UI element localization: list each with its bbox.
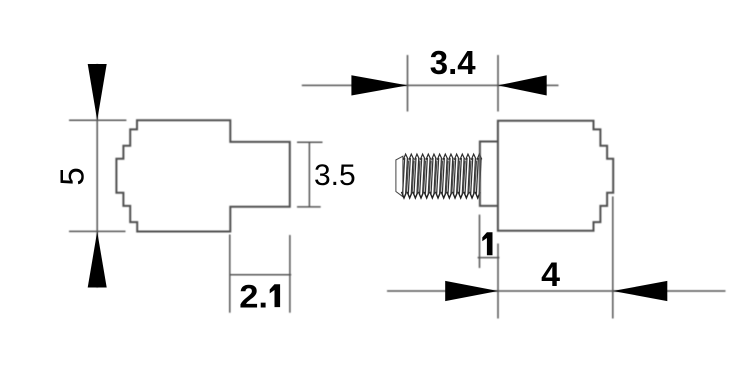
svg-text:2.: 2. [239, 279, 268, 315]
svg-text:3.4: 3.4 [430, 44, 477, 81]
svg-text:3.5: 3.5 [314, 159, 356, 192]
svg-text:4: 4 [541, 256, 560, 294]
svg-text:5: 5 [53, 167, 90, 185]
